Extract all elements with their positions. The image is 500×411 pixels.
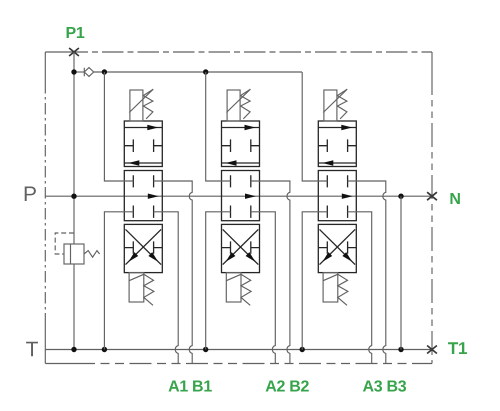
- wire: relief outlet down to T line: [73, 264, 75, 350]
- V2 bottom spring-lever operator: [226, 273, 241, 302]
- V3 box1 flow arrow right: [318, 127, 356, 129]
- valve V3 position box 1: [318, 121, 356, 167]
- V3 box1 flow arrow left: [318, 162, 356, 164]
- V2 box1 blocked ports: [222, 139, 260, 152]
- V1 box3 cross flow diagonals: [126, 229, 162, 264]
- port P1 mark: [69, 48, 79, 56]
- svg-text:T: T: [26, 338, 39, 361]
- svg-text:P: P: [23, 183, 37, 206]
- valve V3 position box 2 (center): [318, 171, 356, 221]
- junction dots on gallery: [71, 69, 76, 74]
- wire: gallery drop to V1 upper-left port: [104, 72, 133, 181]
- valve V1 position box 3 (float): [124, 224, 162, 272]
- V1 box1 blocked ports: [124, 139, 162, 152]
- V2 top spring-lever operator: [227, 90, 240, 121]
- wire: V2 lower-left port down to T line: [206, 212, 231, 350]
- svg-text:P1: P1: [66, 25, 85, 42]
- enclosure border (chain line): [45, 51, 88, 53]
- V2 box2 lower blocked ports: [231, 206, 251, 218]
- V1 box1 flow arrow left: [124, 162, 162, 164]
- V3 box3 side ports: [318, 241, 356, 253]
- junction dots on T line: [71, 347, 76, 352]
- svg-text:T1: T1: [448, 339, 467, 358]
- V2 box2 flow arrow right (P passage): [245, 194, 256, 199]
- wire: P1 down to gallery and P line, relief inlet: [73, 52, 75, 244]
- check valve: [84, 68, 93, 77]
- port T1 mark: [427, 346, 437, 354]
- V1 top spring-lever operator: [130, 90, 143, 121]
- V1 box2 flow arrow right (P passage): [148, 194, 159, 199]
- junction dots on P line: [71, 194, 76, 199]
- V3 box3 cross flow diagonals: [320, 229, 356, 264]
- V3 box2 lower blocked ports: [327, 206, 347, 218]
- gallery wire from junction to check valve: [74, 71, 84, 73]
- valve V2 position box 2 (center): [222, 171, 260, 221]
- V2 box3 side ports: [222, 241, 260, 253]
- wire: V1 port A1 to bottom edge: [154, 212, 179, 364]
- wire: V3 port B3 to bottom edge: [348, 181, 386, 364]
- svg-text:A1 B1: A1 B1: [168, 378, 212, 395]
- wire: P to T bypass at right (N/T1 gallery): [400, 196, 402, 349]
- valve V1 position box 1: [124, 121, 162, 167]
- valve V3 position box 3 (float): [318, 224, 356, 272]
- relief valve pilot line (dashed): [55, 233, 74, 254]
- V2 box1 flow arrow right: [222, 127, 260, 129]
- V1 box3 side ports: [124, 241, 162, 253]
- relief valve RV1: [64, 244, 84, 264]
- V1 bottom spring-lever operator: [129, 273, 144, 302]
- T return line: [45, 349, 432, 351]
- port N mark: [427, 192, 437, 200]
- wire: V3 lower-left port down to T line: [302, 212, 327, 350]
- wire: V2 port A2 to bottom edge: [251, 212, 275, 364]
- svg-text:A2 B2: A2 B2: [265, 378, 309, 395]
- wire: V3 port A3 to bottom edge: [348, 212, 372, 364]
- wire: V1 port B1 to bottom edge: [154, 181, 193, 364]
- wire: gallery drop to V2 upper-left port: [206, 72, 231, 181]
- V3 bottom spring-lever operator: [323, 273, 338, 302]
- wire: gallery drop to V3 upper-left port: [302, 72, 327, 181]
- valve V2 position box 3 (float): [222, 224, 260, 272]
- svg-text:N: N: [449, 191, 460, 208]
- valve V2 position box 1: [222, 121, 260, 167]
- P supply line: [45, 195, 432, 197]
- V3 box2 upper blocked ports: [327, 175, 347, 187]
- svg-text:A3 B3: A3 B3: [362, 378, 406, 395]
- V3 top spring-lever operator: [324, 90, 337, 121]
- V1 box2 lower blocked ports: [133, 206, 153, 218]
- gallery wire: check valve to valve 3 drop corner: [94, 71, 302, 73]
- wire: V2 port B2 to bottom edge: [251, 181, 290, 364]
- V2 box2 upper blocked ports: [231, 175, 251, 187]
- valve V1 position box 2 (center): [124, 171, 162, 221]
- V2 box1 flow arrow left: [222, 162, 260, 164]
- V3 box1 blocked ports: [318, 139, 356, 152]
- V1 box1 flow arrow right: [124, 127, 162, 129]
- V3 box2 flow arrow right (P passage): [342, 194, 353, 199]
- V1 box2 upper blocked ports: [133, 175, 153, 187]
- V2 box3 cross flow diagonals: [223, 229, 259, 264]
- wire: V1 lower-left port down to T line: [104, 212, 133, 350]
